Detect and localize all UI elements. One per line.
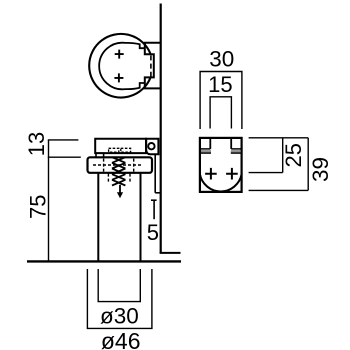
svg-text:30: 30 [209,46,234,71]
front view slot right bottom [231,148,241,150]
front view roller arc [200,174,242,191]
press direction arrow head [117,192,123,198]
pivot block (elevation) [146,139,158,155]
collar (elevation, o46) [88,157,153,173]
dim 25/39 top extension [249,137,309,139]
grey spring bar left [201,150,211,153]
post right edge [140,173,142,261]
line under grey bar left [201,152,211,154]
roller outer ring (plan view, o46 buffer) [89,34,150,98]
hidden mech dashed below collar left [107,174,109,182]
screw head hidden outline (dashed) left [109,148,119,152]
hinge tab [96,153,104,157]
front screw cross left [205,168,217,180]
dim o46 bracket [87,269,151,328]
svg-text:ø46: ø46 [101,328,141,350]
screw head hidden outline (dashed) right [121,148,131,152]
catch plate on door (plan view) [145,43,162,89]
roller inner ring (plan view) [99,43,145,90]
dim 5 upper tick [155,192,161,194]
screw cross mark lower (plan) [114,73,123,82]
spring (zig-zag section) [112,157,125,185]
screw cross mark upper (plan) [115,50,124,59]
dim 5 leader [153,200,155,219]
front view housing [200,138,242,192]
svg-text:15: 15 [208,72,232,97]
hidden mech dashed vertical left [103,159,105,172]
svg-text:39: 39 [308,157,333,182]
svg-text:13: 13 [24,132,49,156]
dim 25 vertical [282,138,284,173]
svg-text:5: 5 [147,220,159,245]
dim 13/75 vertical dimension line [48,140,50,261]
hidden mech dashed vertical right [133,159,135,172]
svg-text:25: 25 [281,143,306,167]
front view slot right inner edge [230,138,232,149]
press direction arrow shaft [119,185,121,193]
dim o30 bracket [98,269,140,302]
post (elevation, o30) left edge [97,173,99,261]
pivot pin circle [148,143,154,149]
svg-text:ø30: ø30 [100,303,139,328]
dim 13 extension top [48,139,79,141]
hidden mech dashed horizontal [93,164,142,166]
dim 39 bottom extension [249,189,309,191]
front view slot left bottom [201,148,210,150]
flap plate (elevation) [95,139,146,153]
dim 30 bracket [200,72,242,130]
dim 5 lower tick [151,199,157,201]
floor line [27,260,181,262]
door bottom edge [160,252,181,254]
line under grey bar right [231,152,241,154]
grey spring bar right [231,150,241,153]
dim 39 vertical [307,138,309,191]
dim 13 extension bottom / 75 top [48,156,81,158]
front screw cross right [226,168,238,180]
svg-text:75: 75 [26,195,51,219]
front view slot left inner edge [209,138,211,149]
door line (plan view top + elevation) [160,4,162,254]
dim 25 bottom tick [249,172,283,174]
hidden edge in catch (dashed) [150,55,152,77]
hidden mech dashed below collar right [129,174,131,182]
dim 5 extension from block [154,154,156,192]
dim 15 bracket [210,97,231,129]
